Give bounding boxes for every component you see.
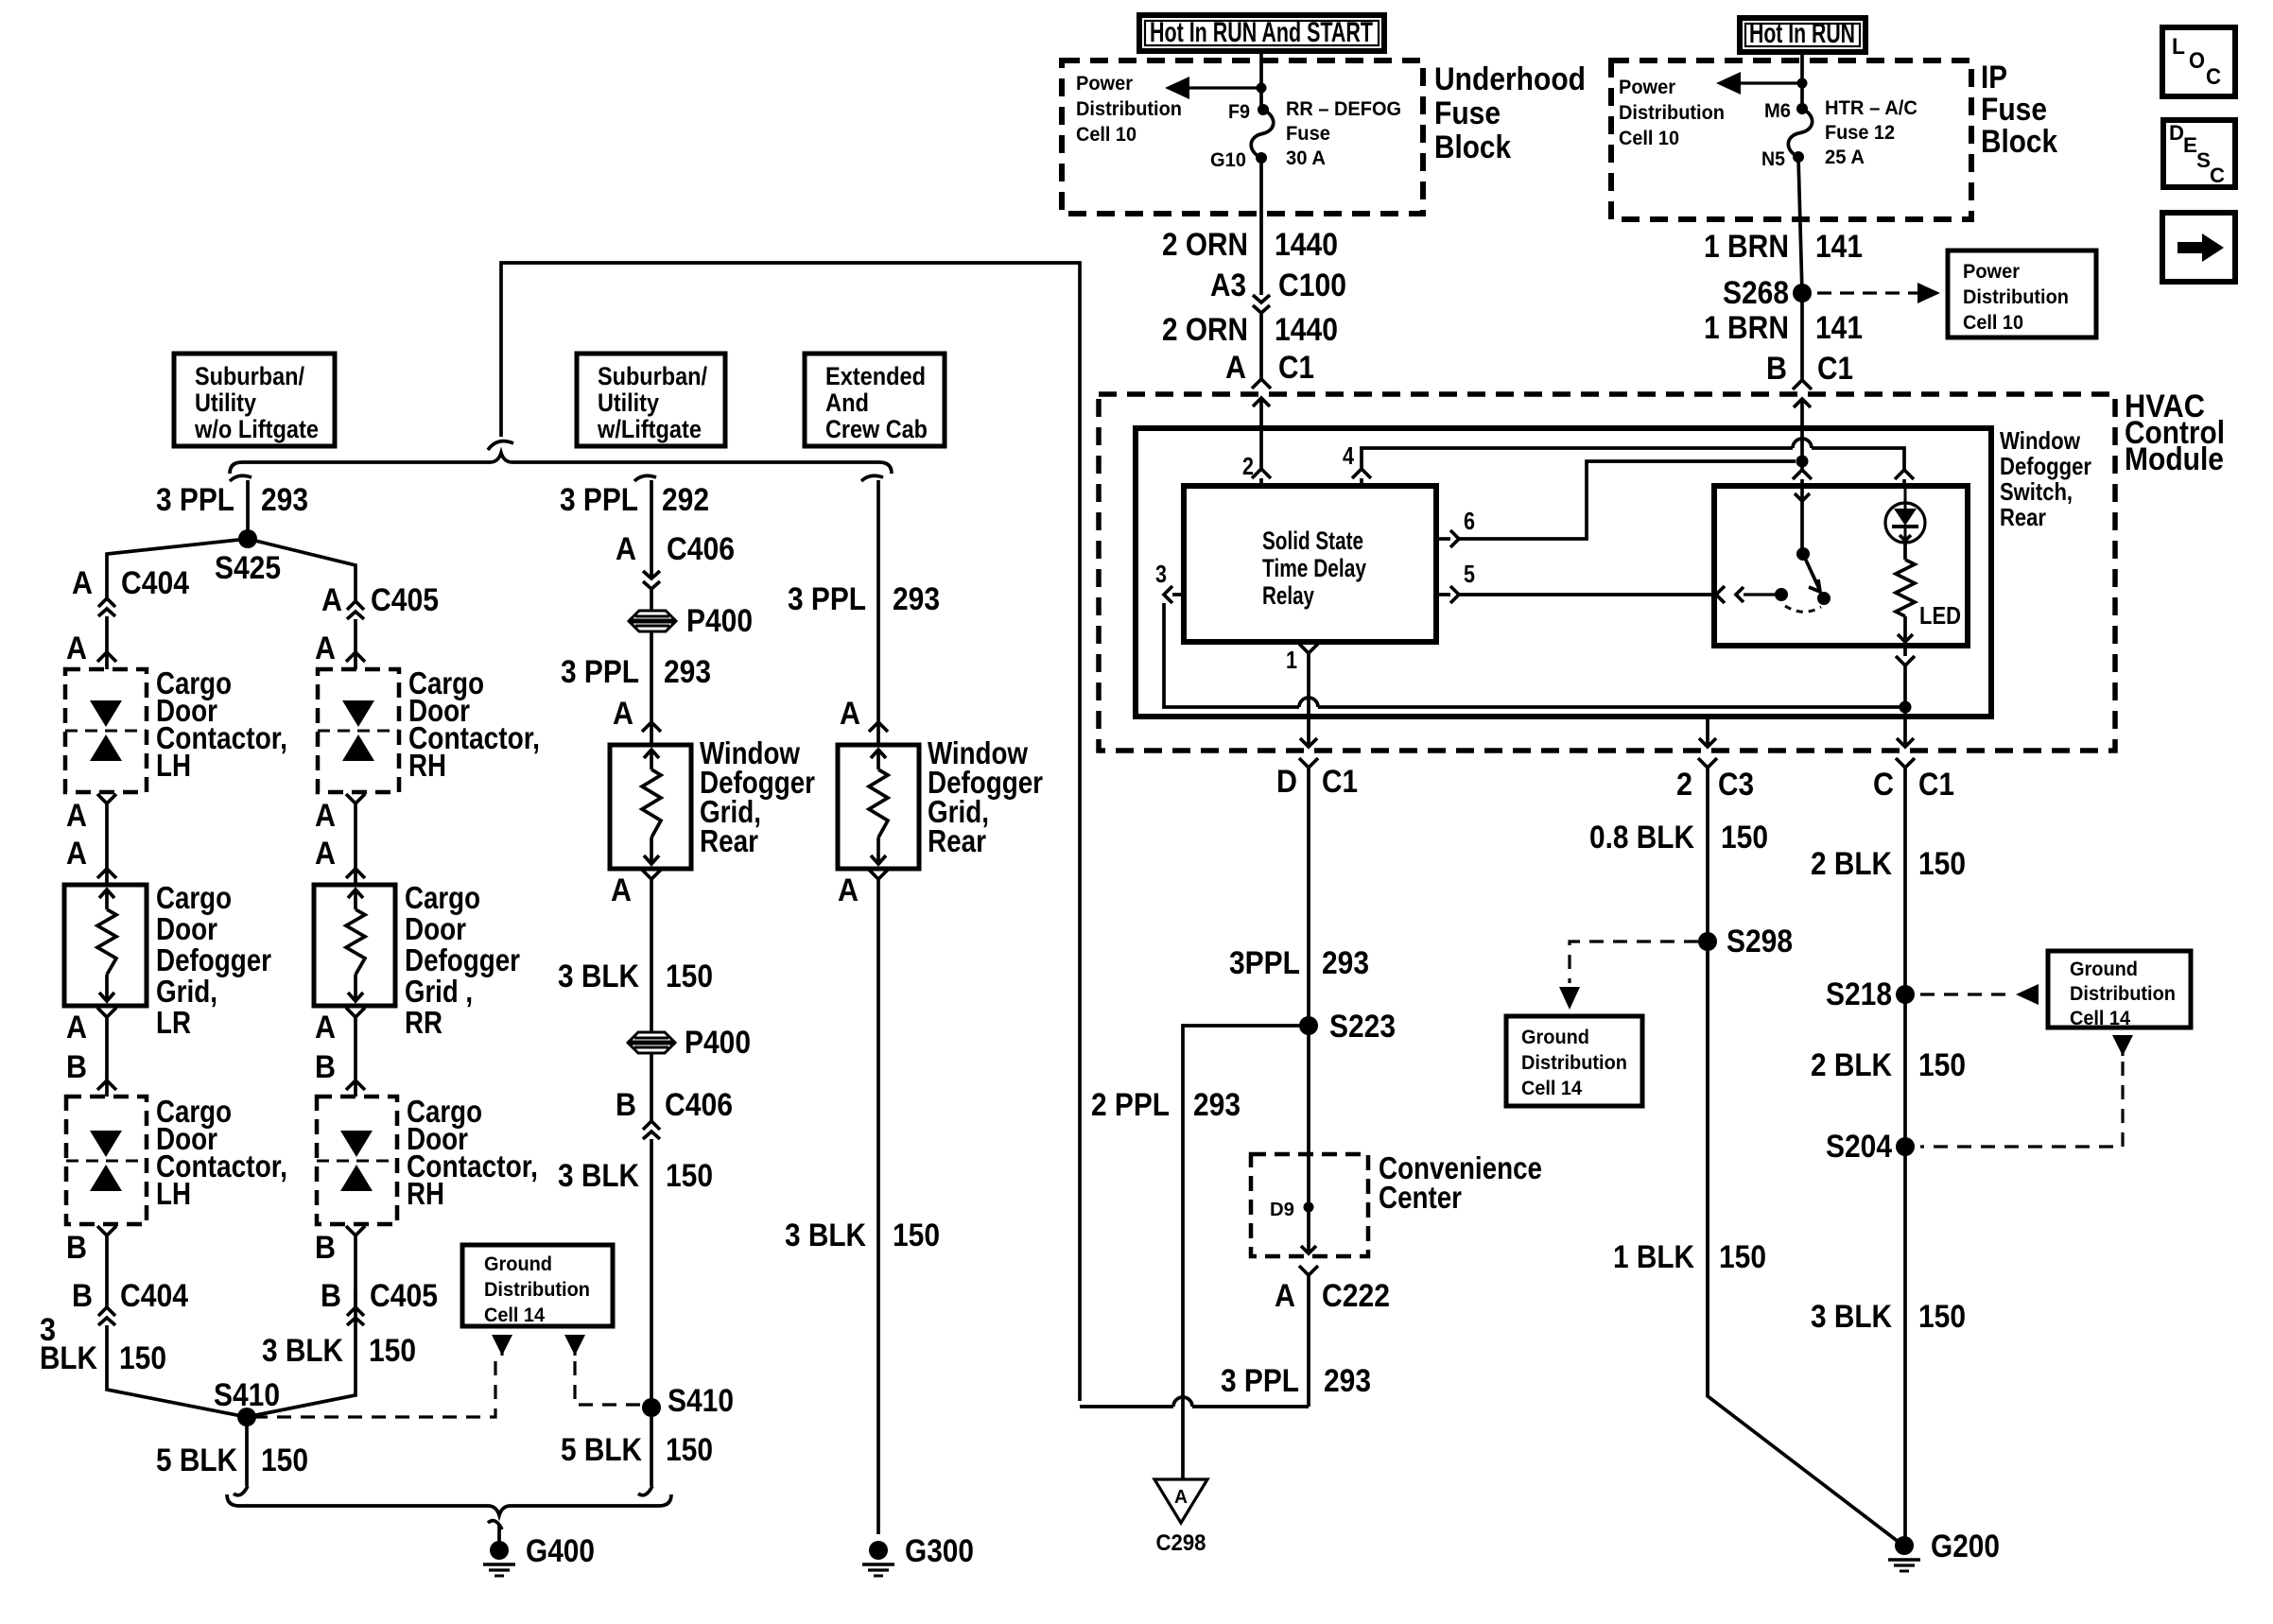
svg-text:1 BRN: 1 BRN	[1704, 229, 1789, 265]
svg-text:B: B	[315, 1049, 336, 1085]
svg-text:LED: LED	[1919, 601, 1961, 630]
LED diode symbol	[1892, 486, 1918, 541]
svg-text:Defogger: Defogger	[405, 942, 520, 977]
connector: contactor LH pin A entry	[97, 652, 116, 669]
brace: harness option selector (top)	[230, 453, 892, 474]
label: 3 PPL (after P400)	[561, 654, 639, 690]
label: 5 BLK (left)	[156, 1443, 237, 1478]
svg-text:RR: RR	[405, 1005, 442, 1040]
wire: pin 1 down out of module	[1307, 653, 1310, 744]
label C100	[1278, 268, 1346, 303]
label: Power Distribution Cell 10 (IP)	[1619, 77, 1725, 149]
connector C222 exit cup	[1299, 1266, 1318, 1407]
label: 150 (branch1)	[119, 1340, 166, 1376]
label: Window Defogger Grid, Rear (mid)	[700, 735, 815, 858]
connector C406 pin A	[643, 571, 660, 589]
label P400 (lower)	[685, 1025, 751, 1061]
svg-text:HTR – A/C: HTR – A/C	[1825, 97, 1917, 119]
svg-text:3 BLK: 3 BLK	[785, 1218, 866, 1253]
wire: S425 to C404 drop	[107, 539, 248, 598]
wire: branch2 brace to C406	[650, 480, 653, 579]
wire: Hot In RUN feed into IP fuse block	[1800, 52, 1804, 109]
svg-text:B: B	[315, 1230, 336, 1266]
label: 150 (mid upper)	[666, 959, 713, 994]
exit arrow C C1	[1896, 738, 1915, 994]
dashed arc: switch travel	[1785, 606, 1821, 612]
title box: Hot In RUN And START	[1139, 15, 1384, 51]
label A (contactor LH out)	[66, 798, 87, 834]
svg-text:A: A	[315, 836, 336, 872]
connector: grid RR pin A entry	[346, 869, 365, 885]
label pin 2	[1242, 452, 1254, 480]
label S298	[1726, 924, 1793, 959]
node: splice D9	[1304, 1202, 1314, 1213]
svg-text:G300: G300	[905, 1533, 974, 1569]
svg-text:Fuse 12: Fuse 12	[1825, 122, 1895, 144]
svg-text:A: A	[611, 872, 632, 908]
svg-text:Grid ,: Grid ,	[405, 974, 473, 1009]
pin 2 connector	[1252, 428, 1271, 486]
wire: resistor to switch box bottom	[1898, 616, 1913, 642]
wire: P400 to C406-B	[650, 1053, 653, 1121]
label: Cargo Door Contactor, RH (lower)	[407, 1094, 538, 1211]
svg-text:3 BLK: 3 BLK	[262, 1333, 343, 1369]
label A (grid RR in)	[315, 836, 336, 872]
fuse M6-N5 HTR-A/C Fuse 12 25 A	[1788, 103, 1812, 163]
node S410 (left)	[237, 1408, 256, 1426]
svg-text:Cell 14: Cell 14	[484, 1304, 545, 1326]
node S298	[1698, 932, 1717, 951]
connector: grid LR pin A exit	[97, 1008, 116, 1080]
svg-text:S218: S218	[1826, 976, 1892, 1012]
dashed line through contactor RH (lower)	[317, 1160, 397, 1163]
convenience center dashed box	[1251, 1154, 1368, 1256]
label: 2 BLK (upper)	[1811, 846, 1892, 882]
svg-text:6: 6	[1464, 507, 1475, 535]
svg-text:G10: G10	[1210, 149, 1246, 171]
label: Convenience Center	[1379, 1150, 1542, 1215]
svg-text:Ground: Ground	[1521, 1027, 1589, 1048]
svg-text:2: 2	[1676, 767, 1692, 803]
svg-text:150: 150	[369, 1333, 416, 1369]
svg-text:Distribution: Distribution	[1521, 1052, 1627, 1074]
label C1 (left entry)	[1278, 350, 1314, 386]
svg-text:293: 293	[1324, 1363, 1371, 1399]
wire: brace cusp to G400	[497, 1524, 501, 1544]
svg-text:Rear: Rear	[2000, 503, 2046, 531]
label pin 3	[1155, 560, 1167, 588]
svg-text:C404: C404	[121, 565, 189, 601]
label: 3 PPL (branch3)	[788, 581, 866, 617]
label: 5 BLK (right)	[561, 1432, 642, 1468]
svg-text:Power: Power	[1076, 73, 1133, 95]
resistor: LED dropping resistor	[1896, 560, 1915, 616]
label B (C405)	[321, 1278, 341, 1314]
label P400 (upper)	[686, 603, 753, 639]
node S425	[238, 529, 257, 548]
legend box LOC	[2162, 27, 2235, 96]
HVAC control module dashed box	[1099, 394, 2115, 751]
svg-text:150: 150	[666, 1432, 713, 1468]
exit arrow 2 C3	[1698, 738, 1717, 1396]
svg-text:150: 150	[1918, 1047, 1966, 1083]
node: switch pivot	[1796, 547, 1810, 561]
component box: cargo door contactor RH (lower)	[317, 1097, 397, 1224]
label: Cargo Door Contactor, LH (upper)	[156, 665, 287, 783]
label: BLK (branch1)	[40, 1340, 97, 1376]
wire: switch output to pin3 junction and out	[1903, 665, 1907, 744]
svg-text:Door: Door	[405, 911, 466, 946]
resistor: grid LR element	[97, 890, 116, 1001]
svg-text:Relay: Relay	[1262, 581, 1314, 610]
wire: defogger switch feed vertical (B C1)	[1800, 428, 1804, 486]
svg-text:Utility: Utility	[195, 389, 256, 417]
label B (C404)	[72, 1278, 93, 1314]
connector: window defogger grid (right) exit	[869, 870, 888, 1534]
node: arrow branch junction	[1257, 83, 1267, 94]
ground G400	[483, 1541, 515, 1576]
label pin 6	[1464, 507, 1475, 535]
contactor RH (upper) bow-tie	[342, 700, 374, 761]
label: Ground Distribution Cell 14 (mid)	[484, 1253, 590, 1326]
ground distribution triangle (right)	[564, 1335, 585, 1356]
underhood fuse block dashed box	[1062, 60, 1423, 214]
node S204	[1896, 1137, 1915, 1156]
svg-text:A: A	[66, 631, 87, 666]
svg-text:C1: C1	[1278, 350, 1314, 386]
label G300	[905, 1533, 974, 1569]
label pin 5	[1464, 560, 1475, 588]
switch feed entry cup (pin4 wire)	[1895, 470, 1914, 486]
node S410 (middle)	[642, 1398, 661, 1417]
label pin 1	[1286, 646, 1297, 674]
wire: S410 left to bottom hook	[245, 1417, 249, 1486]
label: Cargo Door Defogger Grid, RR	[405, 880, 520, 1040]
svg-text:A: A	[66, 1010, 87, 1045]
label: 1 BRN (lower)	[1704, 310, 1789, 346]
label C406 (lower)	[665, 1087, 733, 1123]
svg-text:Cell 10: Cell 10	[1076, 124, 1136, 146]
svg-text:P400: P400	[685, 1025, 751, 1061]
label: 3 (blk branch1)	[40, 1312, 56, 1348]
svg-text:Solid State: Solid State	[1262, 527, 1363, 555]
dashed wire: S218 to ground distribution cell 14 (right)	[1920, 984, 2039, 1005]
connector C1 pin B entry to HVAC	[1793, 380, 1812, 428]
connector: window defogger grid (right) entry	[869, 722, 888, 745]
svg-text:A3: A3	[1210, 268, 1246, 303]
svg-text:S204: S204	[1826, 1129, 1892, 1165]
svg-text:S268: S268	[1723, 275, 1789, 311]
connector C298 triangle	[1154, 1479, 1207, 1523]
svg-text:150: 150	[1721, 820, 1768, 855]
hook: G400 feed	[488, 1521, 502, 1529]
label: 150 (right 5 BLK)	[666, 1432, 713, 1468]
svg-text:C: C	[1873, 767, 1894, 803]
svg-text:Time Delay: Time Delay	[1262, 554, 1366, 582]
label C3 (exit)	[1718, 767, 1754, 803]
svg-text:Module: Module	[2125, 441, 2224, 477]
dashed line through contactor RH (upper)	[318, 730, 399, 733]
label: Window Defogger Grid, Rear (right)	[928, 735, 1043, 858]
svg-text:S223: S223	[1329, 1009, 1396, 1045]
svg-text:P400: P400	[686, 603, 753, 639]
dashed wire: S298 to ground distribution cell 14	[1570, 942, 1698, 983]
label A (C405)	[321, 582, 342, 618]
label M6	[1764, 100, 1791, 122]
label: 3 BLK (mid upper)	[558, 959, 639, 994]
svg-text:3: 3	[1155, 560, 1167, 588]
label pin 4	[1343, 441, 1354, 470]
contactor RH (lower) bow-tie	[340, 1131, 373, 1191]
label S223	[1329, 1009, 1396, 1045]
component box: cargo door contactor LH (lower)	[66, 1097, 147, 1224]
label: 150 (2 BLK upper)	[1918, 846, 1966, 882]
legend box DESC	[2163, 120, 2235, 187]
label S425	[215, 550, 281, 586]
svg-text:A: A	[616, 531, 636, 567]
svg-text:Cargo: Cargo	[156, 880, 232, 915]
label C405	[371, 582, 439, 618]
svg-text:Block: Block	[1434, 130, 1511, 165]
svg-text:2 PPL: 2 PPL	[1091, 1087, 1170, 1123]
svg-text:150: 150	[1918, 1299, 1966, 1335]
svg-text:Cell 14: Cell 14	[1521, 1078, 1582, 1099]
svg-text:BLK: BLK	[40, 1340, 97, 1376]
svg-text:B: B	[1766, 351, 1787, 387]
svg-text:3 PPL: 3 PPL	[156, 482, 234, 518]
label A3	[1210, 268, 1246, 303]
wire: loop back to harness option riser	[1080, 1397, 1309, 1407]
dashed wire: ground distribution to S410 (middle leg)	[575, 1361, 648, 1405]
wire: C406-B down to S410 (middle)	[650, 1139, 653, 1408]
wire: C405 to contactor RH	[354, 619, 357, 652]
switch actuate arrow	[1736, 587, 1781, 602]
connector C404 pin A	[98, 598, 115, 616]
svg-text:3 PPL: 3 PPL	[1221, 1363, 1299, 1399]
svg-text:A: A	[1225, 350, 1246, 386]
box: Ground Distribution Cell 14 (right)	[2048, 951, 2191, 1028]
svg-text:A: A	[838, 872, 859, 908]
svg-text:Fuse: Fuse	[1286, 123, 1330, 145]
label C (exit)	[1873, 767, 1894, 803]
label B (C1 pin)	[1766, 351, 1787, 387]
label: 3 PPL (C222)	[1221, 1363, 1299, 1399]
label: 150 (mid lower)	[666, 1158, 713, 1194]
box: Ground Distribution Cell 14 (left)	[1506, 1016, 1642, 1106]
svg-text:Suburban/: Suburban/	[195, 362, 304, 390]
pin 4 connector	[1352, 469, 1371, 486]
svg-text:N5: N5	[1761, 148, 1785, 170]
switch blade (open)	[1803, 554, 1820, 592]
label: HTR-A/C Fuse 12 25 A	[1825, 97, 1917, 168]
node S218	[1896, 985, 1915, 1004]
connector: contactor RH pin A exit	[346, 794, 365, 869]
label: 141 (lower)	[1815, 310, 1863, 346]
label: 141 (upper)	[1815, 229, 1863, 265]
wire: S268 down to C1 pin B	[1800, 293, 1804, 379]
label LED	[1919, 601, 1961, 630]
svg-text:4: 4	[1343, 441, 1354, 470]
svg-text:Grid,: Grid,	[156, 974, 217, 1009]
svg-text:B: B	[66, 1049, 87, 1085]
connector: contactor LH pin A exit	[97, 794, 116, 869]
dashed wire: S268 to power distribution cell 10	[1817, 283, 1940, 303]
svg-text:B: B	[72, 1278, 93, 1314]
wire: feed from brace cusp up and over to bottom-left riser	[501, 263, 1080, 1401]
wire: S223 branch to C298 riser	[1183, 1026, 1309, 1403]
label: 2 PPL	[1091, 1087, 1170, 1123]
label B (contactor LH2 out)	[66, 1230, 87, 1266]
label: Window Defogger Switch, Rear	[2000, 426, 2091, 531]
svg-text:5: 5	[1464, 560, 1475, 588]
wire: C100 to C1	[1259, 313, 1263, 378]
connector: window defogger grid (mid) exit	[642, 870, 661, 1032]
svg-text:A: A	[840, 696, 860, 732]
label: 293 (C222)	[1324, 1363, 1371, 1399]
label A (contactor RH out)	[315, 798, 336, 834]
svg-text:3PPL: 3PPL	[1229, 945, 1300, 981]
svg-text:C: C	[2206, 64, 2221, 90]
svg-text:Rear: Rear	[700, 823, 758, 858]
svg-text:A: A	[66, 836, 87, 872]
wire: D9 to C222 exit	[1301, 1207, 1316, 1253]
label: 1 BLK	[1613, 1239, 1694, 1275]
label: 3 BLK (branch3)	[785, 1218, 866, 1253]
label: 0.8 BLK	[1589, 820, 1694, 855]
svg-text:LR: LR	[156, 1005, 191, 1040]
svg-text:Distribution: Distribution	[1076, 98, 1182, 120]
connector: window defogger grid (mid) entry	[642, 722, 661, 745]
switch arm feed arrow	[1795, 486, 1810, 548]
label: 1440 (upper)	[1275, 227, 1338, 263]
hook: branch 2 (w/liftgate)	[634, 475, 656, 481]
label: 150 (branch3)	[893, 1218, 940, 1253]
wire: C406 to P400 (upper)	[650, 589, 653, 611]
wire: pin 4 to switch via hop over B feed	[1362, 439, 1904, 470]
svg-text:D9: D9	[1270, 1200, 1294, 1220]
svg-text:Window: Window	[2000, 426, 2081, 455]
connector: contactor RH pin A entry	[346, 652, 365, 669]
label: 150 (0.8 BLK)	[1721, 820, 1768, 855]
label A (grid LR out)	[66, 1010, 87, 1045]
label: 293 (after P400)	[664, 654, 711, 690]
svg-text:Underhood: Underhood	[1434, 61, 1586, 97]
svg-text:C100: C100	[1278, 268, 1346, 303]
connector C1 pin A entry to HVAC	[1252, 379, 1271, 428]
svg-text:2 BLK: 2 BLK	[1811, 846, 1892, 882]
wire: pin 3 down and across to LED output	[1164, 603, 1905, 707]
label: Underhood Fuse Block	[1434, 61, 1586, 165]
wire: 2 C3 stub out of module	[1706, 717, 1709, 744]
label: 3 PPL (branch2)	[560, 482, 638, 518]
resistor: grid RR element	[346, 890, 365, 1001]
svg-text:Door: Door	[156, 911, 217, 946]
svg-text:F9: F9	[1228, 101, 1250, 123]
label: 3 BLK (mid lower)	[558, 1158, 639, 1194]
svg-text:Suburban/: Suburban/	[598, 362, 707, 390]
label C1 (right entry)	[1817, 351, 1853, 387]
label C404	[121, 565, 189, 601]
arrow to power distribution cell 10 (underhood)	[1165, 77, 1261, 99]
label C406	[667, 531, 735, 567]
title box: Hot In RUN	[1740, 18, 1865, 52]
svg-text:292: 292	[662, 482, 709, 518]
label A (grid rear mid out)	[611, 872, 632, 908]
svg-text:150: 150	[119, 1340, 166, 1376]
hook: branch 3 (extended/crew cab)	[861, 475, 883, 481]
node: pin6 wire joins defogger switch feed	[1796, 456, 1809, 468]
HVAC module inner box	[1136, 428, 1991, 717]
label: Cargo Door Contactor, RH (upper)	[408, 665, 540, 783]
svg-text:C298: C298	[1156, 1530, 1206, 1556]
dashed wire: ground distribution to S204	[1920, 1062, 2123, 1147]
label G400	[526, 1533, 595, 1569]
label: Ground Distribution Cell 14 (left box)	[1521, 1027, 1627, 1099]
svg-text:G400: G400	[526, 1533, 595, 1569]
legend box forward arrow	[2162, 213, 2235, 282]
label D (exit)	[1276, 764, 1297, 800]
svg-text:293: 293	[893, 581, 940, 617]
ground G200	[1888, 1536, 1920, 1571]
label: HVAC Control Module	[2125, 389, 2225, 477]
connector C405 pin B	[347, 1307, 364, 1325]
svg-text:w/o Liftgate: w/o Liftgate	[194, 415, 319, 443]
label C405 (lower)	[370, 1278, 438, 1314]
svg-text:S410: S410	[214, 1377, 280, 1413]
label D9	[1270, 1200, 1294, 1220]
svg-text:2 ORN: 2 ORN	[1162, 227, 1248, 263]
svg-text:Ground: Ground	[2070, 959, 2138, 980]
svg-text:C404: C404	[120, 1278, 188, 1314]
svg-text:LH: LH	[156, 748, 191, 783]
label: Solid State Time Delay Relay	[1262, 527, 1366, 610]
box: Ground Distribution Cell 14 (mid)	[462, 1245, 613, 1326]
svg-text:A: A	[315, 1010, 336, 1045]
option box: Suburban/Utility w/o Liftgate	[174, 354, 335, 446]
switch output exit cup	[1896, 646, 1915, 665]
svg-text:Distribution: Distribution	[1963, 286, 2069, 308]
svg-text:25 A: 25 A	[1825, 147, 1865, 168]
label B (contactor RH2 out)	[315, 1230, 336, 1266]
connector: contactor LH lower pin B entry	[97, 1080, 116, 1097]
exit arrow D C1	[1299, 738, 1318, 1026]
svg-text:141: 141	[1815, 310, 1863, 346]
wire: S223 down into convenience center	[1307, 1026, 1310, 1207]
wire: S425 to C405 drop	[248, 539, 356, 601]
svg-text:B: B	[321, 1278, 341, 1314]
component box: window defogger grid rear (mid)	[610, 745, 691, 869]
svg-text:3 PPL: 3 PPL	[561, 654, 639, 690]
label A (grid rear mid in)	[613, 696, 633, 732]
svg-text:Power: Power	[1963, 261, 2020, 283]
label C404 (lower)	[120, 1278, 188, 1314]
svg-text:150: 150	[893, 1218, 940, 1253]
node: switch left contact	[1775, 588, 1788, 601]
svg-text:1 BRN: 1 BRN	[1704, 310, 1789, 346]
svg-text:C3: C3	[1718, 767, 1754, 803]
wire: C404 to contactor LH	[105, 616, 109, 652]
label: 293 (branch3)	[893, 581, 940, 617]
svg-text:S: S	[2196, 148, 2211, 172]
component box: cargo door defogger grid RR	[314, 885, 395, 1006]
hook: right 5 BLK end	[638, 1486, 652, 1495]
hook: left 5 BLK end	[234, 1486, 248, 1495]
label G200	[1931, 1529, 2000, 1564]
label: IP Fuse Block	[1981, 60, 2057, 160]
svg-text:C406: C406	[665, 1087, 733, 1123]
label: Ground Distribution Cell 14 (right box)	[2070, 959, 2176, 1029]
svg-text:C406: C406	[667, 531, 735, 567]
